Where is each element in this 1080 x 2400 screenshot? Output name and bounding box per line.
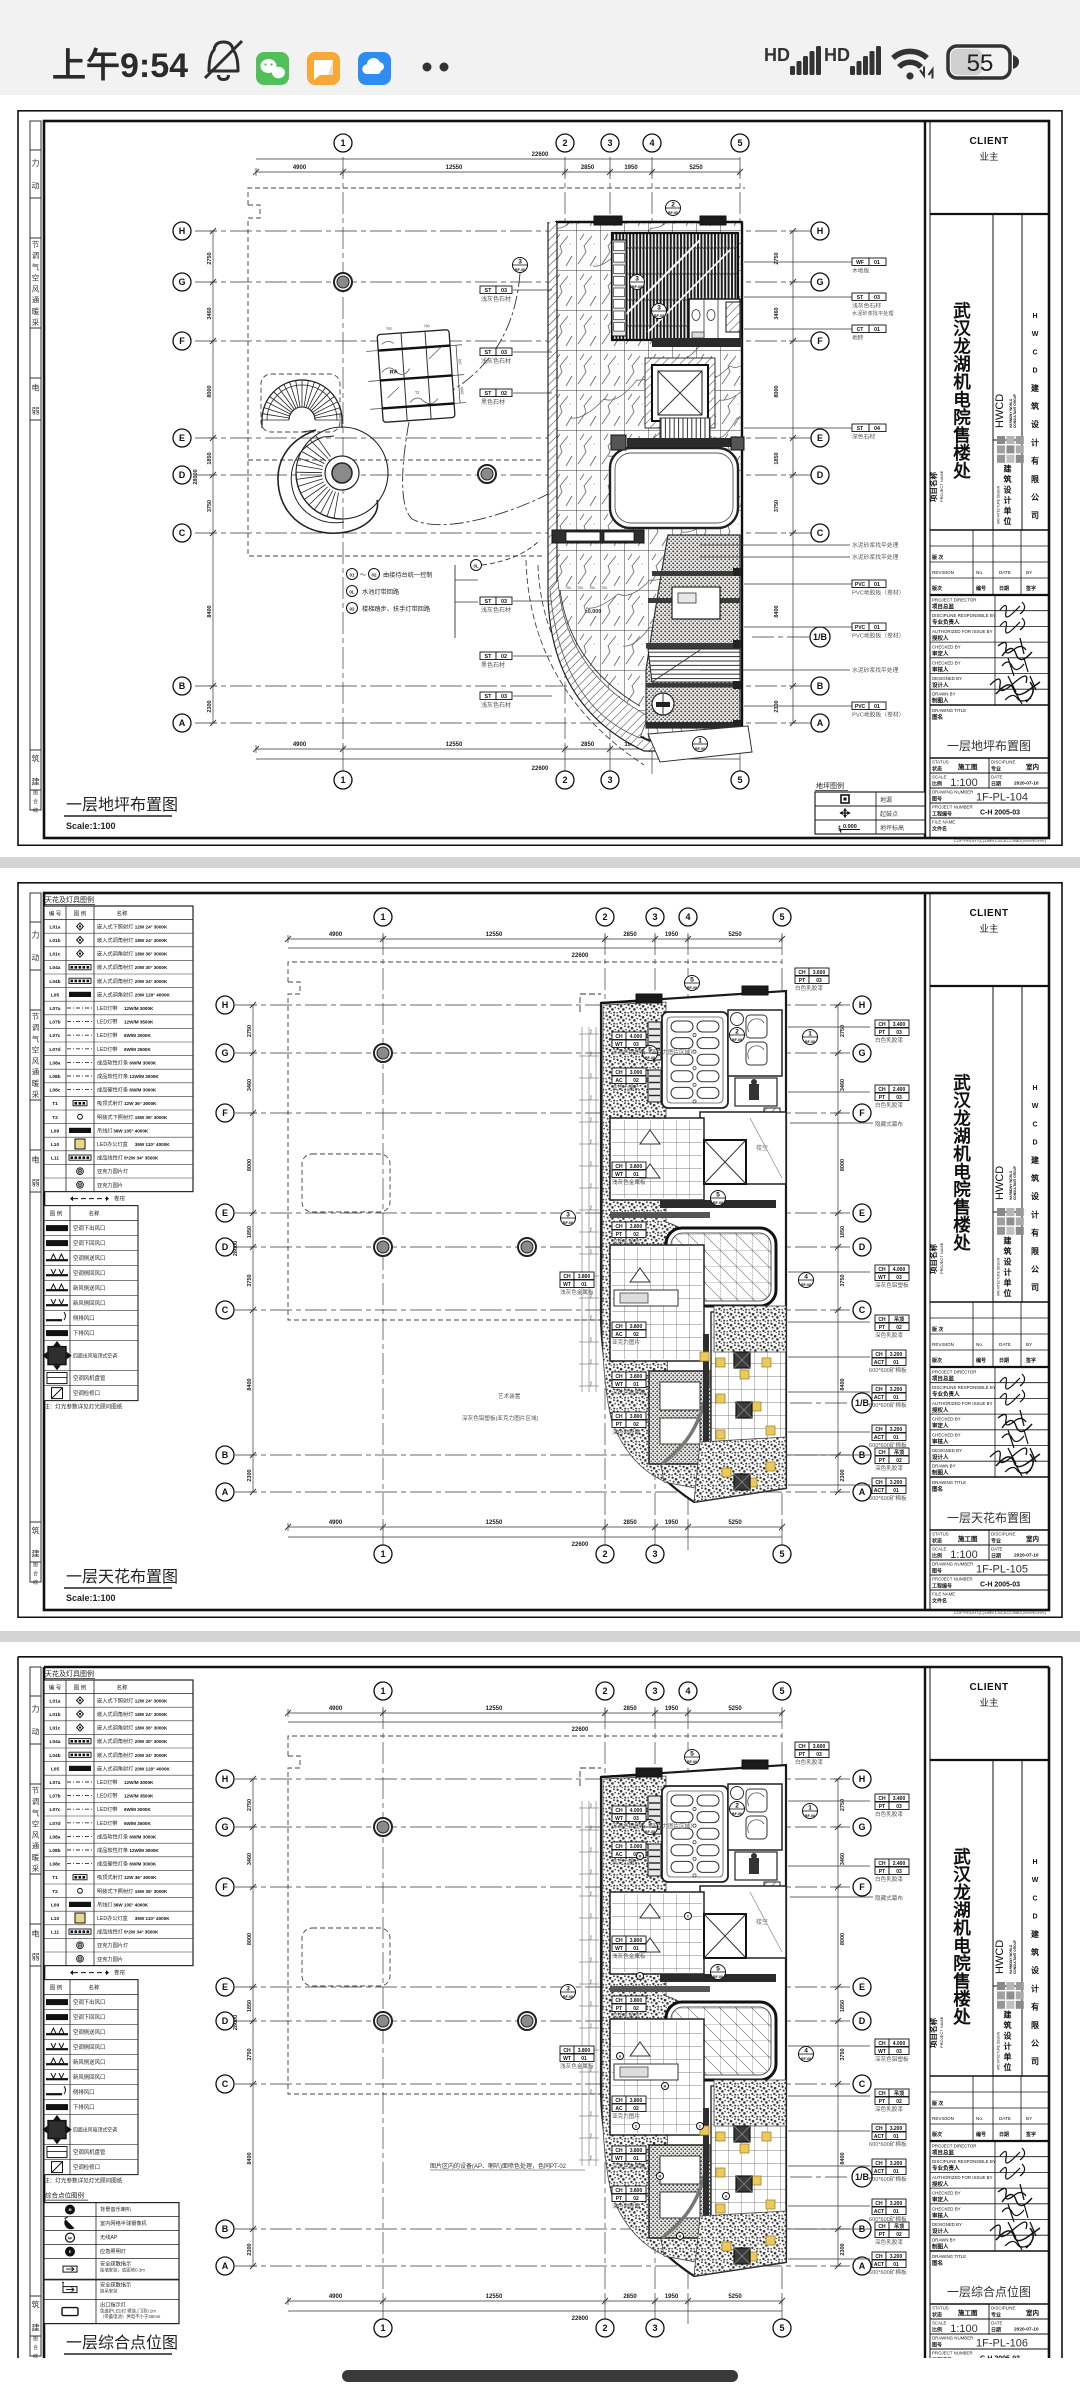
drawing title box [930,1476,1049,1478]
detail markers [685,1750,700,1765]
material tag ST 03 [480,692,496,700]
property boundary dashed [248,188,745,205]
svg-text:PROJECT NAME: PROJECT NAME [939,1242,944,1274]
svg-text:8400: 8400 [247,2152,253,2164]
svg-text:由接待台统一控制: 由接待台统一控制 [383,571,433,579]
svg-text:空调风机盘管: 空调风机盘管 [73,1374,106,1382]
svg-text:亚克力图片: 亚克力图片 [612,1338,640,1346]
west curved wall band [556,222,648,742]
svg-text:B: B [817,681,824,691]
svg-text:审核人: 审核人 [932,665,949,673]
grid bubble G right [853,1044,871,1062]
svg-text:亚克力圆片: 亚克力圆片 [97,1955,123,1963]
svg-text:01: 01 [893,1435,899,1441]
svg-text:36W 105° 4000K: 36W 105° 4000K [113,1128,149,1133]
svg-text:授权人: 授权人 [932,634,949,642]
svg-text:6W/M 3000K: 6W/M 3000K [129,1060,156,1065]
svg-text:01: 01 [893,2134,899,2140]
ceiling height tag [612,1806,626,1814]
svg-text:1850: 1850 [840,2000,846,2012]
material tag PVC 01 right [852,623,869,631]
svg-text:2.400: 2.400 [893,1087,906,1093]
svg-text:750: 750 [589,1095,593,1100]
svg-text:L04b: L04b [49,979,60,985]
svg-text:CHECKED BY: CHECKED BY [932,1417,961,1422]
svg-text:背景音乐喇叭: 背景音乐喇叭 [100,2205,131,2213]
svg-text:AUTHORIZED FOR ISSUE BY: AUTHORIZED FOR ISSUE BY [932,1401,993,1406]
svg-text:5*2W 34° 3500K: 5*2W 34° 3500K [124,1930,159,1935]
svg-text:5*2W 34° 3500K: 5*2W 34° 3500K [124,1156,159,1161]
svg-text:图 例: 图 例 [50,1984,63,1992]
grid bubble H right [853,996,871,1014]
svg-text:BF-08: BF-08 [563,1221,573,1225]
svg-text:12550: 12550 [486,932,503,938]
svg-text:750: 750 [589,1869,593,1874]
dimension row [256,171,740,173]
svg-text:01: 01 [874,260,880,266]
svg-text:12W/M 3000K: 12W/M 3000K [124,1006,154,1011]
grid bubble 1 bottom [374,1545,392,1563]
svg-text:750: 750 [424,324,430,328]
svg-text:CH: CH [615,2188,623,2194]
wc cubicles [689,299,740,340]
svg-text:新风侧回风口: 新风侧回风口 [73,1299,105,1307]
svg-text:比例: 比例 [932,2327,942,2334]
svg-text:STATUS: STATUS [932,1532,949,1537]
material tag ST 03 [480,348,496,356]
svg-text:WT: WT [615,1042,623,1048]
grid bubble G right [811,273,829,291]
svg-text:600*600矿棉板: 600*600矿棉板 [869,1401,907,1409]
svg-text:3: 3 [566,1212,570,1219]
svg-text:1F-PL-106: 1F-PL-106 [976,2338,1028,2350]
svg-text:PT: PT [879,1804,885,1810]
svg-text:3750: 3750 [247,2048,253,2060]
svg-text:新风侧回风口: 新风侧回风口 [73,2073,105,2081]
svg-text:3.000: 3.000 [630,1070,643,1076]
svg-text:深灰色铝塑板: 深灰色铝塑板 [875,1281,909,1289]
grid bubble F left [173,332,191,350]
svg-text:嵌入式下照射灯: 嵌入式下照射灯 [97,922,133,930]
svg-text:C: C [1032,349,1037,356]
svg-text:DESIGNED BY: DESIGNED BY [932,1448,962,1453]
column D1 (spiral center) [333,465,351,483]
svg-text:H: H [1032,1085,1037,1092]
svg-text:RA: RA [390,369,398,376]
svg-text:气: 气 [32,1033,40,1043]
svg-text:750: 750 [589,1161,593,1166]
svg-text:CHECKED BY: CHECKED BY [932,645,961,650]
svg-text:有: 有 [1031,456,1039,466]
svg-text:空调下出风口: 空调下出风口 [73,1224,105,1232]
F-line wall [652,338,742,347]
svg-text:12W/M 3000K: 12W/M 3000K [124,1780,154,1785]
svg-text:四面出风吸顶式空调: 四面出风吸顶式空调 [73,1353,117,1360]
svg-text:DRAWN BY: DRAWN BY [932,1464,956,1469]
svg-text:2850: 2850 [623,932,637,938]
dimension row [288,2300,782,2302]
svg-text:4: 4 [804,1274,808,1281]
svg-text:1:100: 1:100 [950,2323,978,2335]
svg-text:L08c: L08c [50,1862,61,1868]
battery 55 [948,46,1010,78]
svg-text:专业: 专业 [991,1538,1001,1545]
svg-text:D: D [817,470,824,480]
svg-text:750: 750 [601,586,607,590]
svg-text:ST: ST [485,694,493,700]
svg-text:PROJECT DIRECTOR: PROJECT DIRECTOR [932,2144,976,2149]
column G1 [374,1818,392,1836]
svg-text:3460: 3460 [840,1853,846,1865]
svg-text:2850: 2850 [623,2294,637,2300]
svg-text:PT: PT [879,1869,885,1875]
grid bubble C left [216,1301,234,1319]
right dimension chain [837,1779,839,2266]
svg-text:电: 电 [32,1155,40,1165]
svg-text:DISCIPLINE: DISCIPLINE [991,760,1015,765]
svg-text:750: 750 [589,1359,593,1364]
grid bubble B left [173,677,191,695]
svg-text:4: 4 [804,2048,808,2055]
interior dim chains left [581,1801,583,2166]
svg-text:调: 调 [32,251,40,260]
detail marker 3 in room [630,275,645,290]
ceiling height tag [612,1842,626,1850]
svg-text:A: A [859,2261,866,2271]
svg-text:计: 计 [1031,1983,1039,1993]
svg-text:CH: CH [875,1480,883,1486]
svg-text:位: 位 [1004,516,1012,526]
svg-text:设: 设 [1004,485,1012,495]
building outline [601,1765,786,2276]
svg-text:750: 750 [589,2111,593,2116]
svg-text:WT: WT [615,1172,623,1178]
meeting rooms bottom [649,2145,711,2238]
svg-text:深灰色金属板: 深灰色金属板 [612,2162,646,2170]
svg-text:建: 建 [1030,1929,1040,1939]
signatures [1000,1374,1025,1389]
svg-text:12W 36° 3000K: 12W 36° 3000K [124,1101,157,1106]
svg-text:CH: CH [798,1744,806,1750]
svg-text:挂墙安装，底距地0.3m: 挂墙安装，底距地0.3m [100,2267,145,2274]
svg-text:深色乳胶漆: 深色乳胶漆 [875,1331,903,1339]
svg-text:2300: 2300 [247,1469,253,1481]
ceiling height tag [875,1448,889,1456]
ceiling height tag [872,2252,886,2260]
svg-text:1: 1 [380,2323,385,2333]
svg-text:浅灰色金属板: 浅灰色金属板 [612,1952,646,1960]
grid bubble H left [173,222,191,240]
svg-text:4900: 4900 [329,1706,343,1712]
page 3: integrated points plan sheet [0,1656,1080,2358]
svg-text:1F-PL-105: 1F-PL-105 [976,1564,1028,1576]
svg-text:审定人: 审定人 [932,2196,949,2204]
status & scale rows [930,757,1049,759]
svg-text:日期: 日期 [999,1357,1009,1364]
grid bubble G left [216,1818,234,1836]
svg-text:室内: 室内 [1026,2308,1039,2317]
svg-text:CHECKED BY: CHECKED BY [932,1432,961,1437]
svg-text:明装式下照射灯: 明装式下照射灯 [97,1113,133,1121]
svg-text:BF-08: BF-08 [654,314,664,318]
svg-text:01: 01 [633,1382,639,1388]
svg-text:FILE NAME: FILE NAME [932,820,955,825]
ceiling height tag [612,2186,626,2194]
svg-text:4.000: 4.000 [630,1034,643,1040]
svg-text:专业: 专业 [991,766,1001,773]
svg-text:处: 处 [952,1233,971,1253]
svg-text:PROJECT NAME: PROJECT NAME [939,470,944,502]
svg-text:REVISION: REVISION [932,570,954,575]
status & scale rows [930,1529,1049,1531]
svg-text:L07d: L07d [49,1821,60,1827]
svg-text:BF-08: BF-08 [805,1814,815,1818]
svg-text:名称: 名称 [88,1210,100,1218]
svg-text:5: 5 [779,1549,784,1559]
grid bubble C right [853,2075,871,2093]
svg-text:E: E [222,1208,228,1218]
svg-text:ACT: ACT [874,1488,884,1494]
wood strip floor room [612,233,738,340]
svg-text:750: 750 [589,1051,593,1056]
discipline strip [30,1667,41,2356]
svg-text:侧排风口: 侧排风口 [73,2088,95,2096]
svg-text:BF-08: BF-08 [645,1830,655,1834]
svg-text:D: D [1032,368,1037,375]
svg-text:DRAWING NUMBER: DRAWING NUMBER [932,1562,973,1567]
title block frame [924,1667,926,2384]
drawing title box [930,2250,1049,2252]
svg-text:楼梯踏步、扶手灯带回路: 楼梯踏步、扶手灯带回路 [362,605,431,613]
svg-text:有: 有 [1031,2002,1039,2012]
svg-text:DATE: DATE [999,1342,1011,1347]
svg-text:WT: WT [615,1946,623,1952]
svg-text:注：灯光参数详见灯光顾问图纸: 注：灯光参数详见灯光顾问图纸 [44,1403,123,1411]
ceiling height tag [875,1020,889,1028]
svg-text:2020-07-10: 2020-07-10 [1014,2327,1039,2333]
grid bubble F right [853,1878,871,1896]
svg-text:WT: WT [615,1816,623,1822]
svg-text:G: G [816,277,823,287]
svg-text:项目名称: 项目名称 [928,1244,938,1274]
svg-text:6W/M 3000K: 6W/M 3000K [124,1807,151,1812]
grid bubble B left [216,1446,234,1464]
svg-text:ST: ST [857,295,863,301]
grid bubble C left [173,524,191,542]
svg-text:状态: 状态 [932,766,942,773]
svg-text:审定人: 审定人 [932,1422,949,1430]
svg-text:3750: 3750 [840,1274,846,1286]
svg-text:3460: 3460 [840,1079,846,1091]
svg-text:750: 750 [589,2133,593,2138]
svg-text:12W/M 3500K: 12W/M 3500K [124,1794,154,1799]
project name section [992,214,994,530]
svg-text:C: C [179,528,186,538]
material tag PVC 01 right [852,580,869,588]
svg-text:CH: CH [615,1070,623,1076]
svg-text:D: D [1032,1140,1037,1147]
svg-text:吊顶: 吊顶 [894,1449,904,1456]
svg-text:侧排风口: 侧排风口 [73,1314,95,1322]
svg-text:750: 750 [589,1205,593,1210]
svg-text:制图人: 制图人 [932,2243,949,2251]
svg-text:PROJECT DIRECTOR: PROJECT DIRECTOR [932,598,976,603]
svg-text:600*600矿棉板: 600*600矿棉板 [869,2268,907,2276]
svg-text:02: 02 [371,573,377,578]
svg-text:HWCD: HWCD [994,394,1006,428]
svg-text:ACT: ACT [874,1360,884,1366]
column G1 [374,1044,392,1062]
svg-text:动: 动 [32,953,40,963]
svg-text:2: 2 [602,912,607,922]
page separator 1 [0,857,1080,868]
svg-text:750: 750 [589,1073,593,1078]
svg-text:2850: 2850 [581,742,595,748]
svg-text:日期: 日期 [991,1553,1001,1560]
svg-text:3.200: 3.200 [890,2126,903,2132]
svg-text:6W/M 3000K: 6W/M 3000K [129,1862,156,1867]
stipple patch SE [714,1306,786,1352]
svg-text:新风侧送风口: 新风侧送风口 [73,1284,105,1292]
svg-text:ST: ST [485,391,493,397]
svg-text:CH: CH [875,2161,883,2167]
svg-text:亚克力图片: 亚克力图片 [612,2112,640,2120]
svg-text:WT: WT [563,1282,571,1288]
svg-text:01: 01 [893,2169,899,2175]
svg-text:01: 01 [874,704,880,710]
svg-text:CH: CH [878,1267,886,1273]
svg-text:1: 1 [340,138,345,148]
svg-text:750: 750 [589,1337,593,1342]
svg-text:3.800: 3.800 [630,1224,643,1230]
svg-text:22600: 22600 [532,766,549,772]
svg-text:22600: 22600 [532,152,549,158]
svg-text:2750: 2750 [247,1799,253,1811]
svg-text:02: 02 [633,1332,639,1338]
svg-text:嵌入式调角射灯: 嵌入式调角射灯 [97,1764,133,1772]
svg-text:750: 750 [589,2155,593,2160]
detail marker 2 annex [730,1028,745,1043]
svg-text:22600: 22600 [572,1542,589,1548]
svg-text:DRAWING NUMBER: DRAWING NUMBER [932,2336,973,2341]
svg-text:18W 24° 3000K: 18W 24° 3000K [135,938,168,943]
svg-text:B: B [222,1450,229,1460]
svg-text:M: M [659,2175,662,2179]
ceiling height tag [612,2146,626,2154]
svg-text:CONSULTANT GROUP: CONSULTANT GROUP [1013,1939,1017,1974]
svg-text:C: C [1032,1895,1037,1902]
svg-text:L04b: L04b [49,1753,60,1759]
svg-text:8400: 8400 [207,605,213,617]
svg-text:气: 气 [32,261,40,271]
svg-text:DRAWN BY: DRAWN BY [932,692,956,697]
svg-text:02: 02 [633,1422,639,1428]
svg-text:4900: 4900 [293,742,307,748]
svg-text:2: 2 [735,1029,739,1036]
svg-text:750: 750 [589,1803,593,1808]
svg-text:12550: 12550 [486,2294,503,2300]
svg-text:L05: L05 [51,1766,60,1772]
svg-text:地砖: 地砖 [852,334,864,342]
ceiling height tag [875,2222,889,2230]
ceiling height tag [612,1372,626,1380]
svg-text:文件名: 文件名 [932,1598,947,1605]
ceiling height tag [872,1385,886,1393]
svg-text:弱: 弱 [32,1953,40,1962]
svg-text:DISCIPLINE: DISCIPLINE [991,2306,1015,2311]
svg-text:版次: 版次 [932,585,942,592]
svg-text:空调检修口: 空调检修口 [73,1389,100,1397]
svg-text:02: 02 [501,654,507,660]
svg-text:36W 105° 4000K: 36W 105° 4000K [113,1902,149,1907]
grid bubble 3 top [646,1682,664,1700]
svg-text:Scale:1:100: Scale:1:100 [66,1593,116,1603]
svg-text:PT: PT [616,2006,622,2012]
svg-text:3.800: 3.800 [630,2098,643,2104]
svg-text:2850: 2850 [623,1520,637,1526]
svg-text:筑: 筑 [1031,1173,1039,1183]
svg-text:PROJECT NUMBER: PROJECT NUMBER [932,1577,973,1582]
svg-text:空: 空 [32,272,40,282]
svg-text:3: 3 [657,305,661,312]
discipline strip [30,893,41,1582]
svg-text:项目总监: 项目总监 [932,2149,955,2157]
svg-text:CH: CH [563,2048,571,2054]
svg-text:设: 设 [1004,2031,1012,2041]
svg-text:亚克力圆片灯: 亚克力圆片灯 [97,1941,128,1949]
svg-text:01: 01 [633,1946,639,1952]
svg-text:L08b: L08b [49,1848,60,1854]
svg-text:PT: PT [879,2099,885,2105]
svg-text:03: 03 [896,1275,902,1281]
svg-text:6W/M 3000K: 6W/M 3000K [129,1088,156,1093]
svg-text:公: 公 [1031,493,1039,502]
revision table [930,1301,1049,1303]
svg-text:一层综合点位图: 一层综合点位图 [947,2284,1031,2299]
svg-text:DRAWING NUMBER: DRAWING NUMBER [932,790,973,795]
ceiling height tag [612,1936,626,1944]
svg-text:3.200: 3.200 [890,2161,903,2167]
ceiling height tag [872,1478,886,1486]
svg-text:水泥砂浆找平处理: 水泥砂浆找平处理 [852,553,899,561]
svg-text:20W 120° 4000K: 20W 120° 4000K [135,992,171,997]
svg-text:6W/M 3000K: 6W/M 3000K [129,1834,156,1839]
wc niche [735,1078,777,1106]
svg-text:H: H [817,226,824,236]
paving legend 地坪图例 [815,781,925,834]
svg-text:浅灰色石材: 浅灰色石材 [481,295,511,303]
svg-text:L11: L11 [51,1156,59,1162]
bar shelving combs [648,1022,661,1060]
svg-text:隐藏式幕布: 隐藏式幕布 [875,1120,903,1128]
dimension row [288,1712,782,1714]
svg-text:L11: L11 [51,1930,59,1936]
material tag ST 02 [480,652,496,660]
svg-text:5250: 5250 [728,2294,742,2300]
svg-text:吊顶: 吊顶 [894,2090,904,2097]
grid bubble 2 bottom [596,2319,614,2337]
svg-text:AUTHORIZED FOR ISSUE BY: AUTHORIZED FOR ISSUE BY [932,2175,993,2180]
page separator 2 [0,1631,1080,1642]
svg-text:AUTHORIZED FOR ISSUE BY: AUTHORIZED FOR ISSUE BY [932,629,993,634]
material tag ST 03 [480,597,496,605]
property boundary dashed [288,1736,782,1756]
svg-text:BF-08: BF-08 [645,1056,655,1060]
ceiling height tag [875,1085,889,1093]
svg-text:建: 建 [32,777,40,787]
svg-text:CH: CH [878,1317,886,1323]
wifi icon [893,51,927,79]
